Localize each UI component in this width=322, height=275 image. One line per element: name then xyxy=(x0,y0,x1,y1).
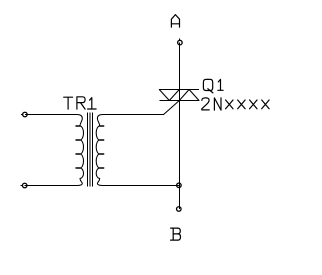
terminal A xyxy=(178,40,183,45)
node B label xyxy=(171,228,181,240)
gate lead of Q1 xyxy=(164,101,180,115)
label Q1 xyxy=(203,79,223,93)
triac Q1 bottom bar xyxy=(159,100,199,102)
triac Q1 left triangle xyxy=(159,90,179,101)
wire TR1 secondary top to gate xyxy=(103,114,164,116)
wire left-top terminal to TR1 primary xyxy=(21,114,23,116)
terminal left-bottom xyxy=(22,183,27,188)
triac Q1 right triangle xyxy=(179,90,199,101)
pin stub above terminal A xyxy=(179,39,181,41)
junction circle xyxy=(177,183,182,188)
node A label xyxy=(171,15,179,28)
terminal B xyxy=(177,207,182,212)
wire left-bottom terminal to TR1 primary xyxy=(21,185,23,187)
transformer TR1 secondary winding xyxy=(96,115,104,186)
wire A through triac down to B xyxy=(179,43,181,209)
wire TR1 secondary bottom to junction xyxy=(103,185,180,187)
terminal left-top xyxy=(23,112,28,117)
transformer TR1 primary winding xyxy=(76,115,84,186)
triac Q1 top bar xyxy=(159,89,199,91)
label 2Nxxxx xyxy=(202,98,269,110)
transformer TR1 core xyxy=(88,113,93,187)
label TR1 xyxy=(64,97,96,109)
